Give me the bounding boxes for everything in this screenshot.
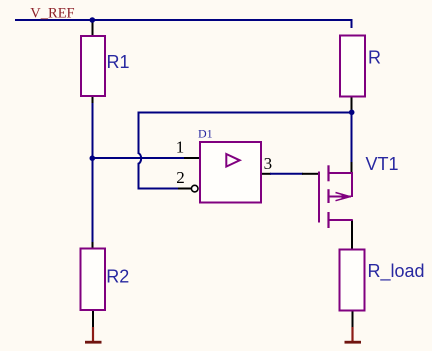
wire R bottom pin (351, 96, 353, 111)
wire R1 bottom to R2 top (92, 96, 94, 104)
wire R2 bottom to ground (92, 310, 94, 328)
wire top horizontal V_REF rail (15, 20, 352, 28)
wire R_load bottom to ground (352, 310, 354, 328)
svg-text:R2: R2 (106, 266, 129, 286)
wire horizontal mid rail to right junction (139, 112, 352, 114)
transistor VT1 channel top dash (327, 165, 329, 181)
svg-text:R1: R1 (107, 52, 130, 72)
wire pin3 to gate (261, 173, 271, 175)
svg-text:VT1: VT1 (366, 154, 399, 174)
resistor R1 (81, 36, 105, 96)
transistor VT1 source lead (329, 219, 353, 221)
wire right vertical junction down to VT1 drain (351, 113, 353, 164)
transistor VT1 body lead with arrow (329, 196, 352, 198)
svg-text:D1: D1 (198, 127, 213, 141)
resistor R (340, 36, 365, 97)
svg-text:R_load: R_load (368, 261, 425, 282)
node junction dot R1/R2 divider (90, 155, 96, 161)
svg-text:V_REF: V_REF (30, 5, 74, 21)
wire pin1 horizontal (93, 157, 185, 159)
wire feedback vertical with hop over pin1 wire (139, 112, 179, 189)
resistor R_load (340, 250, 365, 311)
pin 2 inversion bubble (191, 185, 198, 192)
svg-text:R: R (368, 47, 381, 67)
wire pin2 stub black (178, 188, 191, 190)
wire left vertical from VREF junction down through R1/R2 (92, 21, 94, 35)
svg-text:1: 1 (176, 137, 185, 156)
transistor VT1 drain-body tie vertical (351, 172, 353, 197)
wire VT1 source down to R_load (351, 220, 353, 249)
transistor Q VT1 MOSFET gate bar (318, 172, 320, 223)
ground symbol left (85, 327, 102, 344)
transistor VT1 channel mid dash (327, 189, 329, 203)
svg-text:3: 3 (264, 154, 273, 173)
node junction dot top at V_REF / R1 (90, 17, 96, 23)
op-amp D1 triangle (226, 154, 239, 167)
transistor VT1 drain lead (329, 172, 353, 174)
svg-text:2: 2 (176, 168, 185, 187)
resistor R2 (81, 249, 106, 311)
op-amp comparator D1 box (200, 142, 261, 203)
transistor VT1 channel bottom dash (327, 212, 329, 228)
node junction dot R bottom / feedback (349, 110, 355, 116)
ground symbol right (345, 327, 362, 344)
